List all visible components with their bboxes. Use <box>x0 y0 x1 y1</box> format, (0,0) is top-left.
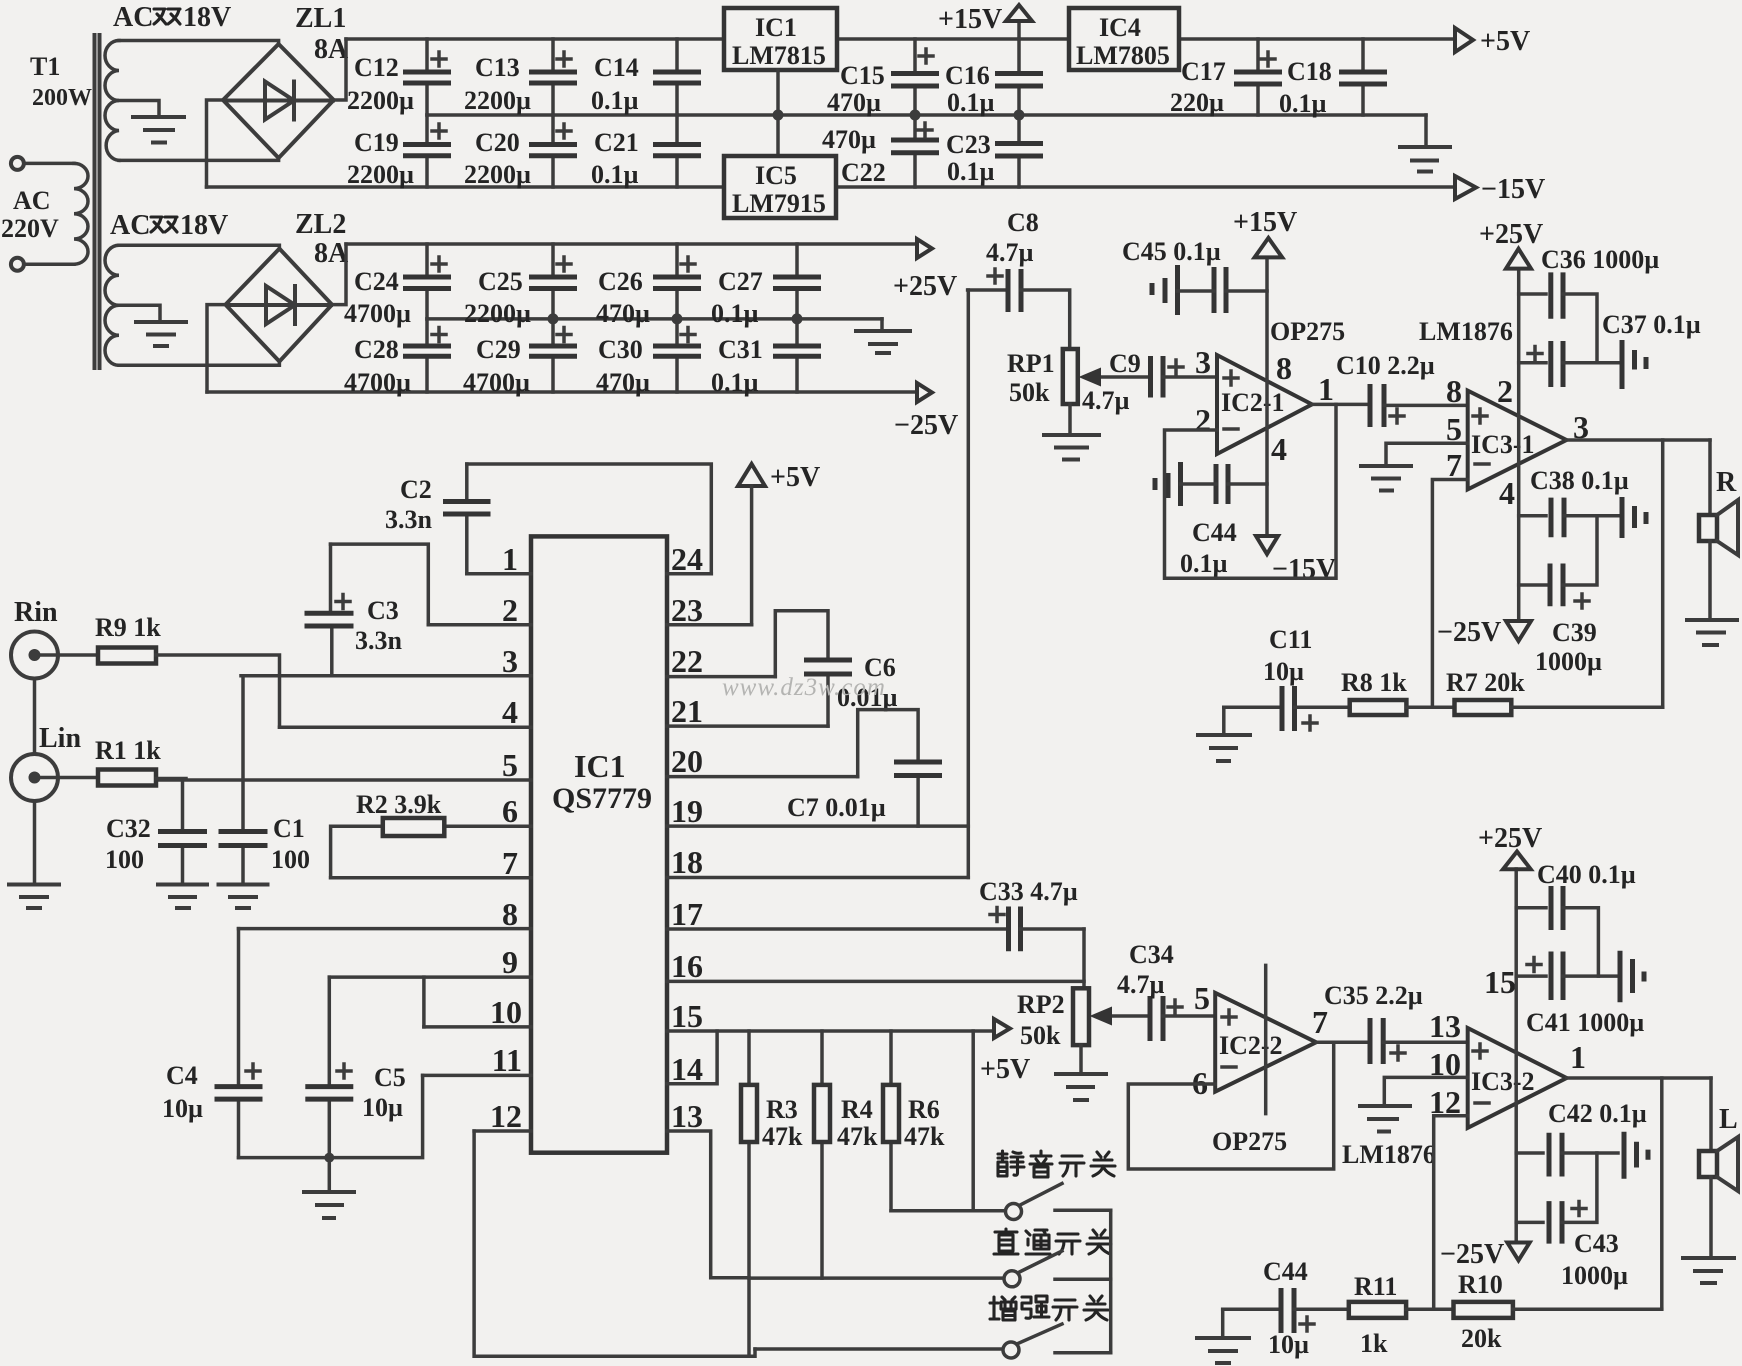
pin 17 wire <box>667 927 1007 931</box>
svg-text:9: 9 <box>502 944 518 980</box>
svg-text:220V: 220V <box>1 214 59 243</box>
capacitor C6 <box>775 611 852 726</box>
junction dot M2 rail C27 <box>792 313 803 324</box>
IC2-1 minus input sign <box>1224 427 1238 431</box>
mute switch contact circle <box>1006 1204 1022 1220</box>
svg-text:3.3n: 3.3n <box>355 626 403 655</box>
svg-text:R11: R11 <box>1354 1272 1397 1301</box>
svg-text:4700µ: 4700µ <box>344 299 411 328</box>
capacitor C32 <box>158 779 207 884</box>
C34 plus sign <box>1168 1000 1182 1014</box>
IC2-1 output wire <box>1312 403 1368 407</box>
svg-text:QS7779: QS7779 <box>552 782 652 815</box>
ground below C44 bottom <box>1197 1338 1249 1363</box>
svg-text:3: 3 <box>1195 344 1211 380</box>
potentiometer RP1 <box>1063 349 1078 435</box>
capacitor C28 <box>403 319 451 392</box>
svg-text:1: 1 <box>1570 1039 1586 1075</box>
wire ZL1 plus output riser <box>334 39 346 100</box>
C17 plus sign <box>1261 52 1275 66</box>
svg-text:C33 4.7µ: C33 4.7µ <box>979 877 1078 906</box>
op-amp IC2-1 triangle <box>1217 355 1312 454</box>
+15V riser <box>1017 21 1021 39</box>
svg-text:C45 0.1µ: C45 0.1µ <box>1122 237 1221 266</box>
capacitor C17 <box>1234 39 1282 115</box>
wire AC terminal2 to primary <box>25 262 75 266</box>
svg-text:ZL1: ZL1 <box>295 3 346 34</box>
capacitor C21 <box>653 115 701 187</box>
wire pin18 riser to C8 <box>967 290 971 878</box>
rail ZL2 negative <box>207 390 917 394</box>
resistor R6 <box>883 1031 899 1211</box>
wire pin2 to C3 <box>331 544 429 625</box>
wire secondary2 bottom to bridge ZL2 <box>119 362 279 365</box>
svg-text:IC2-2: IC2-2 <box>1219 1031 1283 1060</box>
rail negative right part <box>836 185 1455 189</box>
wire Rin to R9 <box>35 653 99 657</box>
direct switch contact circle <box>1004 1271 1020 1287</box>
svg-text:C18: C18 <box>1287 57 1332 86</box>
svg-text:10µ: 10µ <box>362 1093 403 1122</box>
capacitor C41 <box>1620 951 1644 1003</box>
speaker L riser <box>1709 1078 1713 1151</box>
svg-text:C2: C2 <box>400 475 432 504</box>
svg-text:ZL2: ZL2 <box>295 209 346 240</box>
svg-text:OP275: OP275 <box>1270 317 1345 346</box>
speaker R riser <box>1708 440 1712 515</box>
ground at IC3-1 pin5 <box>1361 466 1411 491</box>
capacitor C15 <box>891 39 939 115</box>
svg-text:3: 3 <box>502 643 518 679</box>
svg-text:AC: AC <box>110 210 150 241</box>
mute switch lever <box>1021 1184 1062 1205</box>
svg-text:13: 13 <box>1429 1008 1461 1044</box>
capacitor C27 <box>773 244 821 319</box>
svg-text:−25V: −25V <box>894 410 958 441</box>
pin 15 wire <box>667 1029 994 1033</box>
wire R1 to pin5 <box>156 777 186 781</box>
wire pin23 riser <box>750 486 754 625</box>
svg-text:8A: 8A <box>314 238 349 269</box>
capacitor C22 <box>891 115 939 187</box>
power amp IC3-2 triangle <box>1468 1028 1567 1128</box>
svg-text:4700µ: 4700µ <box>344 368 411 397</box>
regulator IC4 LM7805 box <box>1069 8 1179 70</box>
C12 plus sign <box>432 52 446 66</box>
IC2-1 feedback loop <box>1165 404 1337 578</box>
pin 5 wire <box>155 778 531 782</box>
IC3-1 output wire <box>1567 438 1711 442</box>
svg-text:2200µ: 2200µ <box>464 160 531 189</box>
ground at transformer tap 1 <box>133 117 184 143</box>
svg-text:C27: C27 <box>718 267 763 296</box>
svg-text:C42 0.1µ: C42 0.1µ <box>1548 1099 1647 1128</box>
svg-text:R3: R3 <box>766 1095 798 1124</box>
C25 plus sign <box>557 257 571 271</box>
svg-text:10µ: 10µ <box>162 1094 203 1123</box>
svg-text:1: 1 <box>502 541 518 577</box>
ground on ZL2 mid rail <box>856 319 910 353</box>
svg-text:14: 14 <box>671 1051 703 1087</box>
C26 plus sign <box>681 257 695 271</box>
svg-text:17: 17 <box>671 896 703 932</box>
svg-text:4: 4 <box>1499 475 1515 511</box>
resistor R8 <box>1350 700 1407 715</box>
ground below C32 <box>158 885 207 909</box>
wire between jacks <box>33 679 37 755</box>
transformer core line 2 <box>98 35 102 368</box>
svg-text:1000µ: 1000µ <box>1535 647 1602 676</box>
AC input terminal 1 <box>11 157 24 170</box>
svg-text:R4: R4 <box>841 1095 873 1124</box>
svg-text:5: 5 <box>1194 980 1210 1016</box>
svg-text:8: 8 <box>1276 350 1292 386</box>
C10 plus sign <box>1390 409 1404 423</box>
svg-text:+15V: +15V <box>1233 207 1297 238</box>
capacitor C13 <box>529 39 577 115</box>
capacitor C36 <box>1519 272 1597 362</box>
capacitor C30 <box>653 319 701 392</box>
AC双18V label upper <box>113 2 231 33</box>
svg-text:470µ: 470µ <box>827 88 881 117</box>
svg-text:C24: C24 <box>354 267 399 296</box>
svg-text:1000µ: 1000µ <box>1561 1261 1628 1290</box>
svg-text:RP2: RP2 <box>1017 990 1065 1019</box>
ground below C5 <box>304 1192 354 1218</box>
svg-text:C30: C30 <box>598 335 643 364</box>
+15V arrow symbol <box>1006 5 1032 21</box>
C29 plus sign <box>557 328 571 342</box>
svg-text:−25V: −25V <box>1440 1239 1504 1270</box>
svg-text:R7 20k: R7 20k <box>1446 668 1525 697</box>
svg-text:L: L <box>1719 1104 1738 1135</box>
svg-text:0.1µ: 0.1µ <box>1180 549 1228 578</box>
svg-text:C19: C19 <box>354 128 399 157</box>
svg-text:7: 7 <box>1446 447 1462 483</box>
pin 6 wire <box>444 825 531 829</box>
ground near C18 <box>1400 147 1450 172</box>
svg-text:+5V: +5V <box>770 462 820 493</box>
capacitor C37 row electrolytic <box>1519 341 1618 387</box>
svg-text:C4: C4 <box>166 1061 198 1090</box>
wire secondary1 bottom to bridge ZL1 <box>119 158 279 160</box>
rail ZL2 positive <box>346 242 917 246</box>
wire C33 to RP2 <box>1082 929 1086 988</box>
boost switch right contact <box>1055 1351 1111 1355</box>
svg-text:T1: T1 <box>30 52 60 81</box>
svg-text:470µ: 470µ <box>596 299 650 328</box>
svg-text:50k: 50k <box>1009 378 1050 407</box>
ground below C11 <box>1198 735 1250 761</box>
svg-text:15: 15 <box>671 998 703 1034</box>
resistor R3 <box>741 1031 757 1356</box>
ground below speaker L <box>1683 1258 1734 1283</box>
svg-text:8A: 8A <box>314 34 349 65</box>
resistor R1 <box>98 770 156 786</box>
svg-text:C11: C11 <box>1269 625 1312 654</box>
wire C5 ground stem <box>328 1158 332 1192</box>
svg-text:100: 100 <box>271 845 310 874</box>
pin 1 wire <box>467 572 531 576</box>
svg-text:11: 11 <box>492 1042 522 1078</box>
svg-text:18V: 18V <box>180 210 228 241</box>
rail IC4 to +5V arrow <box>1179 37 1455 41</box>
junction dot M2 rail C25 <box>548 313 559 324</box>
IC3-2 output wire <box>1567 1076 1711 1080</box>
transformer secondary winding 1 <box>105 41 119 161</box>
capacitor C4 <box>215 929 263 1158</box>
svg-text:2200µ: 2200µ <box>464 299 531 328</box>
svg-text:C9: C9 <box>1109 349 1141 378</box>
rail mid ground <box>427 113 1426 117</box>
svg-text:10µ: 10µ <box>1263 657 1304 686</box>
wire pin12 to bottom rail <box>474 1131 755 1356</box>
svg-text:C29: C29 <box>476 335 521 364</box>
capacitor C44 bottom <box>1223 1288 1349 1333</box>
capacitor C43 <box>1516 1153 1597 1244</box>
IC2-2 feedback loop <box>1128 1042 1333 1169</box>
Rin jack <box>11 632 58 679</box>
svg-text:200W: 200W <box>32 85 92 111</box>
C3 plus sign <box>336 595 350 609</box>
pin 11 wire <box>423 1074 531 1078</box>
rail between IC1 and IC4 <box>837 37 1069 41</box>
svg-text:C44: C44 <box>1263 1257 1308 1286</box>
wire IC1 ground pin <box>776 70 780 115</box>
mute switch right contact <box>1055 1209 1111 1213</box>
pin 8 wire <box>239 927 532 931</box>
wire R7 to output <box>1511 706 1662 710</box>
-25V arrow IC3-1 <box>1506 621 1531 641</box>
resistor R7 <box>1455 700 1512 715</box>
mute switch wire <box>891 1209 1004 1213</box>
ground at IC3-2 pin10 <box>1360 1106 1410 1132</box>
wire secondary1 center tap <box>119 101 159 118</box>
svg-text:C35 2.2µ: C35 2.2µ <box>1324 981 1423 1010</box>
ground below jacks <box>9 885 59 909</box>
ground below speaker R <box>1687 620 1737 645</box>
svg-text:LM1876: LM1876 <box>1419 317 1513 346</box>
speaker L <box>1699 1137 1738 1191</box>
svg-text:0.1µ: 0.1µ <box>591 86 639 115</box>
svg-text:100: 100 <box>105 845 144 874</box>
svg-text:R: R <box>1716 467 1737 498</box>
wire jack ground <box>33 801 37 884</box>
svg-text:8: 8 <box>1446 373 1462 409</box>
svg-text:4: 4 <box>502 694 518 730</box>
svg-text:OP275: OP275 <box>1212 1127 1287 1156</box>
direct switch lever <box>1020 1251 1063 1272</box>
svg-text:LM7915: LM7915 <box>732 189 826 218</box>
svg-text:7: 7 <box>502 845 518 881</box>
speaker R <box>1699 500 1738 555</box>
Lin jack <box>11 754 58 801</box>
IC3-2 minus input sign <box>1475 1101 1489 1105</box>
svg-text:4.7µ: 4.7µ <box>1082 386 1130 415</box>
svg-text:C1: C1 <box>273 814 305 843</box>
-25V arrow psu <box>917 383 932 402</box>
transformer T1 primary winding <box>74 163 88 264</box>
wire pin10 riser <box>422 977 426 1027</box>
capacitor C2 <box>443 464 491 574</box>
svg-text:IC3-1: IC3-1 <box>1471 430 1535 459</box>
capacitor C25 <box>529 244 577 319</box>
svg-text:C12: C12 <box>354 53 399 82</box>
ground at transformer tap 2 <box>136 322 186 346</box>
svg-text:RP1: RP1 <box>1007 349 1055 378</box>
svg-text:C41 1000µ: C41 1000µ <box>1526 1008 1644 1037</box>
-15V arrow IC2-1 <box>1256 536 1278 554</box>
capacitor C14 <box>653 39 701 115</box>
capacitor C37 <box>1622 340 1646 389</box>
capacitor C19 <box>403 115 451 187</box>
svg-text:6: 6 <box>502 793 518 829</box>
IC2-2 power vertical <box>1264 965 1268 1113</box>
C39 plus sign <box>1575 594 1589 608</box>
pin 9 wire <box>329 975 531 979</box>
svg-text:13: 13 <box>671 1098 703 1134</box>
svg-text:18V: 18V <box>183 2 231 33</box>
rail negative <box>207 185 725 189</box>
svg-text:C21: C21 <box>594 128 639 157</box>
svg-text:C13: C13 <box>475 53 520 82</box>
wire AC terminal1 to primary <box>25 162 75 166</box>
capacitor C29 <box>529 319 577 392</box>
speaker L ground stem <box>1709 1177 1713 1258</box>
boost switch lever <box>1018 1324 1062 1344</box>
wire R8 to R7 <box>1406 706 1454 710</box>
bridge ZL1 diode symbol <box>225 82 333 120</box>
op-amp IC2-2 triangle <box>1215 993 1316 1092</box>
svg-text:C3: C3 <box>367 596 399 625</box>
svg-text:2200µ: 2200µ <box>347 86 414 115</box>
wire ZL2 plus output riser <box>332 244 346 305</box>
boost switch wire <box>755 1347 1002 1351</box>
svg-text:LM7815: LM7815 <box>732 41 826 70</box>
regulator IC5 LM7915 box <box>724 156 836 218</box>
svg-text:1: 1 <box>1318 371 1334 407</box>
C13 plus sign <box>557 52 571 66</box>
wire IC5 input pin <box>776 115 780 156</box>
capacitor C9 <box>1151 356 1218 398</box>
capacitor C12 <box>403 39 451 115</box>
IC1 QS7779 body <box>531 536 667 1152</box>
svg-text:4: 4 <box>1271 431 1287 467</box>
svg-text:47k: 47k <box>904 1122 945 1151</box>
capacitor C26 <box>653 244 701 319</box>
C35 plus sign <box>1391 1046 1405 1060</box>
svg-text:5: 5 <box>502 747 518 783</box>
svg-text:C34: C34 <box>1129 940 1174 969</box>
+5V arrow pin15 <box>994 1019 1010 1038</box>
svg-text:IC1: IC1 <box>574 748 626 784</box>
capacitor C41 row electrolytic <box>1516 952 1616 1001</box>
capacitor C11 <box>1224 686 1350 731</box>
+25V arrow IC3-2 <box>1503 852 1531 870</box>
IC2-2 output wire <box>1316 1041 1368 1045</box>
svg-text:10: 10 <box>490 994 522 1030</box>
power amp IC3-1 triangle <box>1468 391 1567 490</box>
svg-text:C38 0.1µ: C38 0.1µ <box>1530 466 1629 495</box>
capacitor C3 <box>305 544 354 676</box>
transformer secondary winding 2 <box>105 245 119 365</box>
C37 row plus sign <box>1528 347 1542 361</box>
svg-text:0.1µ: 0.1µ <box>1279 89 1327 118</box>
pin 23 wire <box>667 623 752 627</box>
C11 plus sign <box>1303 716 1317 730</box>
IC3-2 pin10 ground wire <box>1384 1077 1467 1106</box>
svg-text:R1 1k: R1 1k <box>95 736 161 765</box>
bridge ZL2 diode symbol <box>227 286 331 324</box>
svg-text:0.1µ: 0.1µ <box>711 299 759 328</box>
svg-text:C15: C15 <box>840 61 885 90</box>
pin 10 wire <box>424 1025 531 1029</box>
svg-text:+25V: +25V <box>1478 823 1542 854</box>
C20 plus sign <box>557 124 571 138</box>
IC3-1 minus input sign <box>1475 462 1489 466</box>
svg-text:C37 0.1µ: C37 0.1µ <box>1602 310 1701 339</box>
svg-text:−15V: −15V <box>1481 174 1545 205</box>
boost switch label 增强开关 <box>990 1296 1108 1320</box>
C19 plus sign <box>432 124 446 138</box>
capacitor C33 <box>1009 907 1085 952</box>
pin 7 wire <box>331 876 531 880</box>
svg-text:470µ: 470µ <box>822 125 876 154</box>
+15V arrow IC2-1 <box>1255 238 1283 258</box>
svg-text:+5V: +5V <box>980 1054 1030 1085</box>
svg-text:C8: C8 <box>1007 208 1039 237</box>
C44 bottom ground stem <box>1221 1309 1225 1338</box>
svg-text:C20: C20 <box>475 128 520 157</box>
C33 plus sign <box>990 908 1004 922</box>
junction dot C5 bottom <box>324 1153 334 1163</box>
capacitor C5 <box>305 977 353 1158</box>
svg-text:LM7805: LM7805 <box>1076 41 1170 70</box>
svg-text:R2 3.9k: R2 3.9k <box>356 790 442 819</box>
svg-text:R6: R6 <box>908 1095 940 1124</box>
C8 plus sign <box>988 269 1002 283</box>
svg-text:220µ: 220µ <box>1170 88 1224 117</box>
capacitor C42 row <box>1516 1133 1618 1177</box>
capacitor C42 <box>1624 1132 1648 1179</box>
junction dot IC1 gnd <box>773 110 784 121</box>
svg-text:+25V: +25V <box>1479 219 1543 250</box>
IC2-1 plus input sign <box>1224 371 1238 385</box>
wire R9 to pin3 step <box>156 655 280 727</box>
C28 plus sign <box>432 328 446 342</box>
svg-text:IC3-2: IC3-2 <box>1471 1067 1535 1096</box>
rail ZL2 mid ground <box>427 317 882 321</box>
svg-text:8: 8 <box>502 896 518 932</box>
IC2-2 minus input sign <box>1222 1065 1236 1069</box>
IC2-1 power vertical <box>1265 259 1269 536</box>
svg-text:C39: C39 <box>1552 618 1597 647</box>
svg-text:C22: C22 <box>841 158 886 187</box>
pin 4 wire <box>280 726 532 730</box>
svg-text:C7 0.01µ: C7 0.01µ <box>787 793 886 822</box>
svg-text:C28: C28 <box>354 335 399 364</box>
svg-text:−25V: −25V <box>1437 617 1501 648</box>
pin 3 wire <box>241 674 531 678</box>
IC3-2 output to feedback drop <box>1660 1078 1664 1309</box>
svg-text:Rin: Rin <box>14 597 58 628</box>
wire R10 to output <box>1513 1308 1662 1312</box>
svg-text:+25V: +25V <box>893 271 957 302</box>
RP1 wiper arrow <box>1079 368 1149 387</box>
IC3-1 output to feedback drop <box>1661 440 1665 707</box>
wire pin15 drop to mute switch <box>971 1031 975 1211</box>
potentiometer RP2 <box>1073 988 1089 1074</box>
